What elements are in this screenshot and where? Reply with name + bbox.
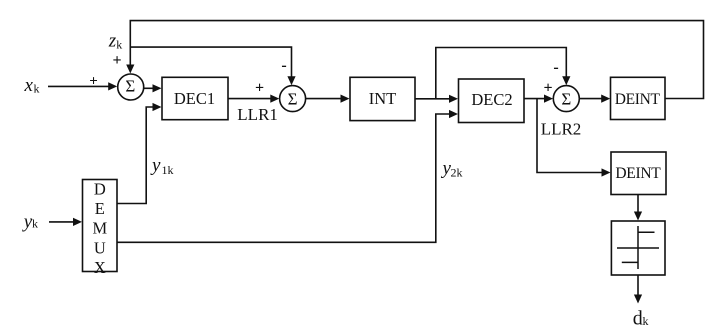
svg-text:2k: 2k [451, 166, 463, 180]
svg-text:+: + [112, 52, 121, 69]
svg-text:d: d [633, 308, 643, 330]
svg-text:k: k [643, 314, 649, 328]
svg-text:+: + [255, 80, 264, 97]
svg-text:-: - [281, 57, 286, 74]
svg-text:U: U [94, 238, 106, 257]
svg-text:k: k [116, 37, 122, 51]
svg-text:Σ: Σ [125, 77, 135, 96]
svg-text:X: X [94, 258, 106, 277]
svg-text:x: x [24, 75, 34, 96]
svg-text:DEINT: DEINT [615, 91, 661, 108]
svg-text:E: E [95, 199, 105, 218]
svg-text:k: k [34, 81, 40, 95]
svg-text:Σ: Σ [561, 89, 571, 108]
svg-text:+: + [543, 80, 552, 97]
svg-text:-: - [553, 59, 558, 76]
svg-text:+: + [89, 73, 98, 89]
svg-text:INT: INT [369, 89, 397, 108]
svg-text:M: M [92, 219, 107, 238]
svg-text:k: k [32, 217, 38, 231]
svg-text:DEINT: DEINT [615, 165, 661, 182]
svg-text:LLR2: LLR2 [541, 120, 582, 139]
svg-text:DEC2: DEC2 [471, 90, 512, 109]
svg-text:D: D [94, 180, 106, 199]
svg-text:1k: 1k [162, 163, 174, 177]
svg-text:DEC1: DEC1 [174, 89, 215, 108]
svg-text:LLR1: LLR1 [237, 105, 278, 124]
svg-text:Σ: Σ [288, 89, 298, 108]
svg-text:y: y [150, 155, 161, 176]
